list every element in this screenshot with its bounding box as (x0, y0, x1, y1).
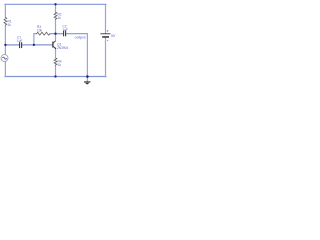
svg-text:1k: 1k (8, 23, 12, 27)
svg-text:output: output (75, 35, 87, 40)
svg-text:1k: 1k (58, 16, 62, 20)
svg-text:1uF: 1uF (17, 39, 23, 43)
svg-text:10k: 10k (37, 28, 43, 32)
svg-text:5V: 5V (111, 34, 116, 38)
svg-text:2N3904: 2N3904 (57, 46, 68, 50)
svg-text:1uF: 1uF (63, 28, 69, 32)
svg-text:1k: 1k (58, 63, 62, 67)
